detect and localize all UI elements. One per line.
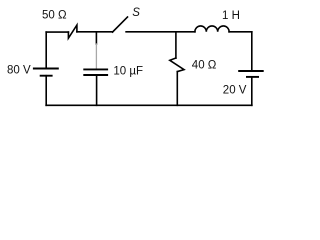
- wire left vertical (to 80V battery): [45, 32, 47, 68]
- wire 80V battery to bottom-left corner: [45, 76, 47, 106]
- resistor R1 50 ohm (break symbol): [68, 25, 77, 38]
- wire 40 ohm branch upper: [175, 32, 177, 58]
- svg-text:40 Ω: 40 Ω: [192, 59, 217, 71]
- wire top middle (break to switch pivot): [77, 31, 113, 33]
- svg-text:10 µF: 10 µF: [113, 66, 143, 78]
- capacitor C1 10uF top plate: [83, 68, 108, 70]
- wire switch contact to inductor: [126, 31, 195, 33]
- battery V2 20V short plate: [246, 76, 259, 78]
- wire capacitor branch upper faint part: [95, 44, 97, 69]
- svg-text:1 H: 1 H: [222, 10, 240, 22]
- wire top-left segment: [46, 31, 68, 33]
- svg-text:80 V: 80 V: [7, 65, 31, 77]
- wire 40 ohm branch lower: [176, 72, 178, 106]
- wire capacitor branch lower: [96, 75, 98, 105]
- battery V1 80V long plate: [33, 68, 59, 70]
- svg-text:S: S: [132, 7, 140, 19]
- battery V1 80V short plate: [40, 75, 53, 77]
- wire capacitor branch upper: [95, 32, 97, 44]
- wire right vertical (to 20V battery): [251, 32, 253, 71]
- resistor R2 40 ohm (break symbol): [170, 58, 184, 72]
- switch S blade: [113, 17, 128, 32]
- svg-text:50 Ω: 50 Ω: [42, 10, 67, 22]
- battery V2 20V long plate: [238, 70, 264, 72]
- wire bottom: [46, 104, 252, 106]
- capacitor C1 10uF bottom plate: [83, 74, 108, 76]
- wire 20V battery to bottom-right corner: [251, 77, 253, 105]
- wire inductor to top-right corner: [229, 31, 252, 33]
- inductor L1 1H: [195, 26, 229, 32]
- svg-text:20 V: 20 V: [223, 85, 247, 97]
